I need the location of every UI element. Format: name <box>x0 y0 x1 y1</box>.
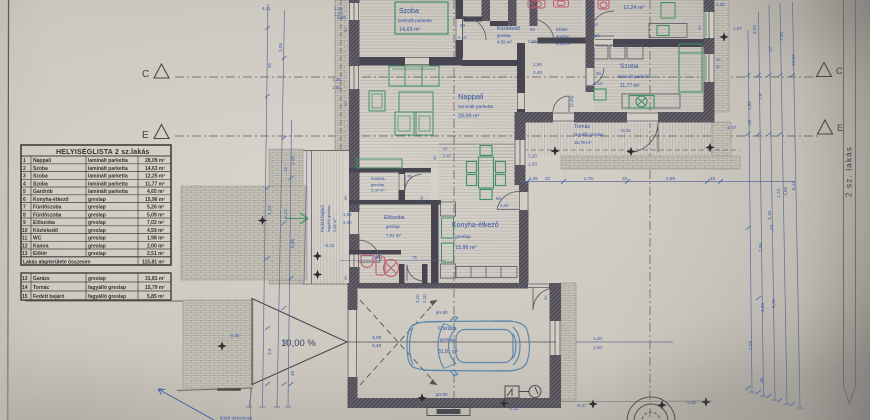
svg-text:2,51 m²: 2,51 m² <box>556 41 571 46</box>
svg-text:2,10: 2,10 <box>594 81 603 86</box>
nappali top wall right piece <box>462 60 517 66</box>
paving hatch entry court <box>269 149 303 284</box>
svg-text:2,10: 2,10 <box>422 294 427 303</box>
svg-text:Kamra: Kamra <box>371 176 385 181</box>
svg-text:greslap: greslap <box>88 213 106 219</box>
svg-text:,45: ,45 <box>747 119 752 126</box>
garage center line <box>347 341 556 343</box>
svg-text:2,8: 2,8 <box>758 93 763 100</box>
site boundary line left <box>25 300 183 302</box>
chain y181 ticks <box>525 179 723 184</box>
svg-text:greslap: greslap <box>440 337 456 342</box>
svg-text:7,00: 7,00 <box>779 32 784 41</box>
svg-text:C: C <box>142 69 149 80</box>
label szoba1 <box>398 8 432 33</box>
svg-text:4,59 m²: 4,59 m² <box>497 40 512 45</box>
dining table <box>467 146 506 200</box>
kamra south wall <box>349 200 441 205</box>
horizontal dim chain y181 <box>521 181 795 183</box>
svg-text:5,26 m²: 5,26 m² <box>147 205 165 211</box>
svg-text:2,51 m²: 2,51 m² <box>147 251 165 257</box>
nappali long sofa south <box>357 159 402 168</box>
svg-text:Gardrób: Gardrób <box>33 189 53 195</box>
svg-text:14,63 m²: 14,63 m² <box>399 27 420 33</box>
svg-text:1,74: 1,74 <box>776 189 781 198</box>
stub wall a <box>482 0 491 21</box>
level marks <box>229 128 697 411</box>
svg-text:4,14: 4,14 <box>267 206 272 215</box>
svg-text:90: 90 <box>496 196 501 201</box>
svg-text:20,: 20, <box>622 176 628 181</box>
roof overhang dashed line south <box>515 149 740 151</box>
svg-text:greslap: greslap <box>88 251 106 257</box>
garage dims text <box>372 335 382 349</box>
szoba 11,77 chair green <box>594 89 606 100</box>
door swing eloter-nappali <box>531 19 554 42</box>
kitchen floor divide line <box>439 143 514 145</box>
svg-text:1,20: 1,20 <box>334 6 343 11</box>
eloter south wall <box>538 38 586 44</box>
left dim line 3 <box>288 120 292 407</box>
svg-text:28,09 m²: 28,09 m² <box>458 114 479 120</box>
svg-text:6: 6 <box>23 197 26 203</box>
eloszoba south wall <box>349 250 401 255</box>
svg-text:45: 45 <box>290 370 295 376</box>
boiler box <box>505 386 519 398</box>
svg-text:8: 8 <box>23 213 26 219</box>
paving hatch SW lower <box>183 300 253 388</box>
svg-text:1,50: 1,50 <box>334 12 343 17</box>
svg-text:12: 12 <box>768 46 773 52</box>
door swing tornac south <box>628 123 658 153</box>
svg-text:30,: 30, <box>283 339 288 345</box>
svg-text:Fürdőszoba: Fürdőszoba <box>33 213 62 219</box>
bottom level dim line <box>420 401 712 402</box>
paving hatch step south of tornac <box>561 156 740 169</box>
svg-text:28,09 m²: 28,09 m² <box>145 158 165 164</box>
svg-text:greslap: greslap <box>88 228 106 234</box>
svg-text:2,40: 2,40 <box>372 343 382 349</box>
svg-text:1,06: 1,06 <box>529 176 538 181</box>
svg-text:Fürdőszoba: Fürdőszoba <box>33 205 62 211</box>
kitchen counter south row <box>456 267 517 278</box>
svg-text:-0,02: -0,02 <box>620 128 631 133</box>
left dim line 4 short <box>304 150 307 284</box>
svg-text:20: 20 <box>716 57 721 62</box>
kitchen stove green <box>442 243 454 262</box>
svg-text:Fedett bejáró: Fedett bejáró <box>33 294 64 300</box>
svg-text:greslap: greslap <box>88 236 106 242</box>
svg-text:15,79 m²: 15,79 m² <box>574 140 592 145</box>
svg-text:laminált parketta: laminált parketta <box>88 158 128 164</box>
door opening to garage <box>528 283 549 289</box>
svg-text:fagyálló greslap: fagyálló greslap <box>88 294 126 300</box>
label eloszoba <box>384 215 405 238</box>
szoba divide wall right <box>595 39 704 47</box>
svg-text:3,5: 3,5 <box>267 348 272 355</box>
svg-text:fagyálló greslap: fagyálló greslap <box>327 205 331 232</box>
svg-text:60: 60 <box>343 195 348 200</box>
svg-text:2,56: 2,56 <box>758 243 763 252</box>
svg-text:-0,02: -0,02 <box>324 243 335 248</box>
tornac west window opening <box>514 140 526 165</box>
svg-text:1,87: 1,87 <box>733 26 742 31</box>
kamra east wall <box>399 173 406 204</box>
kitchen counter bottom <box>441 264 456 278</box>
svg-text:1,00: 1,00 <box>343 212 352 217</box>
svg-text:90: 90 <box>593 22 598 27</box>
bathroom fixture north 2 <box>554 0 569 7</box>
svg-text:5,16: 5,16 <box>771 299 776 308</box>
svg-text:2,75: 2,75 <box>584 176 593 181</box>
east wall window 2 <box>703 54 715 82</box>
szoba 11,77 bed green <box>679 44 702 92</box>
svg-text:60: 60 <box>343 275 348 280</box>
nappali east wall opening <box>517 93 526 109</box>
floor texture nappali <box>359 66 517 168</box>
floor texture eloszoba-kamra-wc <box>359 172 431 283</box>
svg-text:12: 12 <box>283 166 288 172</box>
svg-text:2,10: 2,10 <box>419 196 424 205</box>
szoba divide door opening <box>594 39 613 48</box>
svg-text:15,79 m²: 15,79 m² <box>145 285 165 291</box>
right dim columns <box>748 2 800 408</box>
szoba 11,77 desk <box>622 94 680 108</box>
svg-text:11,77 m²: 11,77 m² <box>145 182 165 188</box>
west wall window opening 2 <box>349 66 361 89</box>
svg-text:2,22: 2,22 <box>283 209 288 218</box>
svg-text:31,81 m²: 31,81 m² <box>145 276 165 282</box>
stub lintel a <box>462 17 482 22</box>
svg-text:2,00 m²: 2,00 m² <box>147 244 165 250</box>
svg-text:4,41: 4,41 <box>262 6 271 11</box>
door swing kamra <box>405 175 421 191</box>
svg-text:1,50: 1,50 <box>533 62 542 67</box>
floor texture tornac <box>525 122 713 156</box>
svg-text:,15: ,15 <box>769 224 774 231</box>
label szoba 11,77 <box>618 63 651 89</box>
szoba 12,24 cabinet <box>661 3 675 19</box>
nappali armchair left <box>369 91 385 111</box>
svg-text:1,28: 1,28 <box>290 156 295 165</box>
kitchen sink green <box>442 218 454 238</box>
svg-text:1,20: 1,20 <box>593 336 602 341</box>
ramp triangle <box>252 299 347 385</box>
garage X arrowheads <box>430 300 438 385</box>
nappali corner dims <box>533 62 542 75</box>
left dim line 1 <box>263 4 269 407</box>
svg-text:2,10: 2,10 <box>415 294 420 303</box>
svg-text:Előszoba: Előszoba <box>384 215 405 221</box>
svg-text:laminált parketta: laminált parketta <box>88 189 128 195</box>
svg-text:12,25 m²: 12,25 m² <box>145 174 165 180</box>
door swing garage entry <box>533 288 555 310</box>
svg-text:Lakás alapterülete összesen: Lakás alapterülete összesen <box>23 260 91 266</box>
svg-text:11: 11 <box>22 236 28 242</box>
svg-text:1,69: 1,69 <box>783 187 788 196</box>
svg-text:greslap: greslap <box>556 34 570 39</box>
site boundary vertical below paving <box>250 387 252 420</box>
wc toilet red <box>361 256 399 277</box>
svg-text:90: 90 <box>443 146 448 151</box>
east exterior wall <box>704 0 715 123</box>
svg-text:pm 90: pm 90 <box>436 310 448 315</box>
svg-text:9: 9 <box>23 220 26 226</box>
svg-text:Tornác: Tornác <box>33 285 50 291</box>
svg-text:7,02 m²: 7,02 m² <box>386 233 401 238</box>
svg-text:14: 14 <box>22 285 28 291</box>
svg-text:greslap: greslap <box>88 276 106 282</box>
svg-text:10: 10 <box>22 228 28 234</box>
svg-text:laminált parketta: laminált parketta <box>458 104 494 110</box>
garage window dims <box>593 336 602 350</box>
svg-text:20: 20 <box>545 176 551 181</box>
svg-text:1: 1 <box>23 158 26 164</box>
bottom left leader arrow <box>158 389 214 420</box>
svg-text:4,28: 4,28 <box>760 303 765 312</box>
szoba 12,24 desk <box>649 24 687 38</box>
right sheet edge bar <box>844 0 856 404</box>
svg-text:11,77 m²: 11,77 m² <box>620 83 640 89</box>
right dim numbers <box>716 2 796 384</box>
svg-text:greslap: greslap <box>497 33 511 38</box>
svg-text:2,40: 2,40 <box>500 203 509 208</box>
svg-text:Konyha-étkező: Konyha-étkező <box>33 197 69 203</box>
svg-text:1,98 m²: 1,98 m² <box>147 236 165 242</box>
svg-text:1,50: 1,50 <box>332 85 341 90</box>
house south wall over garage <box>348 283 562 289</box>
svg-text:C: C <box>836 66 843 76</box>
label garazs <box>438 326 458 355</box>
room list table <box>21 145 171 300</box>
svg-text:-1,07: -1,07 <box>726 125 737 130</box>
stub wall d <box>586 0 595 92</box>
svg-text:13: 13 <box>22 251 28 257</box>
svg-text:1,50: 1,50 <box>593 345 602 350</box>
entry arrow green <box>285 213 308 224</box>
svg-text:90: 90 <box>460 23 465 28</box>
door swing szoba1 <box>463 17 487 41</box>
paving hatch west strip <box>335 0 349 150</box>
sheet left margin shading <box>0 0 8 420</box>
svg-text:Nappali: Nappali <box>458 92 484 101</box>
svg-text:5,85 m²: 5,85 m² <box>147 294 165 300</box>
nappali sofa top <box>389 66 439 86</box>
svg-text:Közlekedő: Közlekedő <box>497 26 521 32</box>
svg-text:greslap: greslap <box>455 234 471 240</box>
svg-text:Szoba: Szoba <box>33 174 48 180</box>
label konyha <box>452 222 499 251</box>
wall thickness labels <box>343 9 721 300</box>
svg-text:Szoba: Szoba <box>399 8 419 15</box>
svg-text:Előtér: Előtér <box>556 27 568 32</box>
garage door opening west <box>347 310 358 377</box>
kitchen east wall <box>519 181 529 283</box>
svg-text:2,10: 2,10 <box>591 33 600 38</box>
svg-text:Szoba: Szoba <box>620 63 639 70</box>
svg-text:külső térburkolat: külső térburkolat <box>220 416 253 420</box>
manhole <box>627 397 675 420</box>
garage west wall <box>348 288 358 408</box>
svg-text:Szoba: Szoba <box>33 182 48 188</box>
nappali coffee table <box>399 92 433 112</box>
szoba1 south door opening <box>405 57 429 67</box>
svg-text:laminált parketta: laminált parketta <box>618 74 651 79</box>
door opening in wall d <box>585 68 595 86</box>
svg-text:5,85 m²: 5,85 m² <box>332 218 337 232</box>
svg-text:60: 60 <box>343 27 348 32</box>
svg-text:greslap: greslap <box>386 224 400 229</box>
dark smudge on site line <box>217 388 241 391</box>
paving hatch SW large <box>181 186 307 280</box>
svg-text:90: 90 <box>432 155 437 160</box>
door swing gardrob <box>407 265 424 282</box>
svg-text:fagyálló greslap: fagyálló greslap <box>574 132 604 137</box>
kitchen east door opening <box>519 192 530 210</box>
section marker C left <box>154 64 169 78</box>
label kozlekedo <box>497 26 521 45</box>
svg-text:pm 90: pm 90 <box>436 392 448 397</box>
wc dim line <box>340 260 446 262</box>
szoba 12,24 chair green <box>657 26 669 36</box>
szoba 11,77 wardrobe <box>586 45 643 59</box>
door swing szoba 11,77 <box>586 68 604 86</box>
left dim numbers <box>262 6 346 376</box>
svg-text:1,20: 1,20 <box>528 154 537 159</box>
bathroom fixture north 1 <box>528 0 545 8</box>
tornac plant green <box>629 96 654 109</box>
svg-text:1,50: 1,50 <box>716 2 725 7</box>
kitchen west wall <box>431 205 439 284</box>
svg-text:15: 15 <box>22 294 28 300</box>
svg-text:90: 90 <box>343 101 348 106</box>
svg-text:5,09 m²: 5,09 m² <box>147 213 165 219</box>
svg-text:greslap: greslap <box>88 197 106 203</box>
svg-text:2,10: 2,10 <box>528 39 537 44</box>
vertical section line through plan <box>453 0 455 414</box>
section line E <box>175 135 818 137</box>
paving hatch east of garage <box>561 283 576 400</box>
svg-text:3,09: 3,09 <box>278 43 283 52</box>
svg-text:4,59 m²: 4,59 m² <box>147 228 165 234</box>
svg-text:3,19: 3,19 <box>767 211 772 220</box>
svg-text:12,24 m²: 12,24 m² <box>623 5 644 11</box>
svg-text:2,10: 2,10 <box>458 35 467 40</box>
door swing entry west <box>358 240 380 262</box>
door swing kitchen <box>497 191 519 209</box>
pump circle <box>519 386 541 398</box>
svg-text:E: E <box>142 130 149 141</box>
svg-text:-0,35: -0,35 <box>229 333 240 338</box>
west wall window opening 1 <box>349 3 361 20</box>
table rows text <box>22 158 165 300</box>
bathroom fixture north 3 <box>598 0 609 9</box>
floor texture kozlekedo <box>463 0 583 40</box>
svg-text:2,59: 2,59 <box>748 341 753 350</box>
szoba1 south wall <box>360 57 463 66</box>
svg-text:greslap: greslap <box>88 205 106 211</box>
stub wall c <box>530 0 538 26</box>
bejaro south edge line <box>303 283 349 285</box>
svg-text:14,63 m²: 14,63 m² <box>145 166 165 172</box>
door swing tornac from szoba <box>553 96 569 112</box>
left dim line 0 <box>249 388 252 407</box>
sheet left frame line <box>8 0 9 420</box>
wc east wall <box>399 264 405 284</box>
floor texture szoba 11,77 <box>594 47 704 112</box>
svg-text:4,65 m²: 4,65 m² <box>147 189 165 195</box>
svg-text:Tornác: Tornác <box>574 124 590 130</box>
label nappali <box>458 92 494 120</box>
east wall window 1 <box>703 12 715 38</box>
floor texture szoba1 <box>359 0 456 57</box>
stub lintel b <box>490 21 508 26</box>
west wall window dims <box>332 6 352 225</box>
svg-text:greslap: greslap <box>88 220 106 226</box>
svg-text:-0,80: -0,80 <box>686 400 697 405</box>
svg-text:90: 90 <box>530 27 535 32</box>
site line bottom left <box>177 388 252 391</box>
label fedett bejaro rotated <box>320 204 337 232</box>
paving hatch tornac east edge <box>712 122 731 169</box>
right dim bottom end ticks <box>749 392 803 408</box>
szoba terrace door opening <box>553 112 574 124</box>
svg-text:Nappali: Nappali <box>33 158 52 164</box>
svg-text:3,02: 3,02 <box>752 25 757 34</box>
svg-text:15,96 m²: 15,96 m² <box>455 245 476 251</box>
left dim bottom end ticks <box>246 406 291 408</box>
svg-text:90: 90 <box>596 71 601 76</box>
svg-text:7,02 m²: 7,02 m² <box>147 220 165 226</box>
tornac window dims <box>528 154 537 167</box>
label eloter <box>556 27 571 46</box>
floor texture fedett bejaro <box>312 150 344 284</box>
west wall wc window <box>349 254 361 267</box>
szoba1 label box <box>395 2 448 34</box>
svg-text:greslap: greslap <box>371 182 385 187</box>
stub wall b <box>508 0 517 26</box>
svg-text:1,85: 1,85 <box>747 101 752 110</box>
garage door sill <box>427 408 470 416</box>
svg-text:3: 3 <box>23 174 26 180</box>
svg-text:2,00 m²: 2,00 m² <box>371 188 385 193</box>
door swing szoba 12,24 <box>589 11 614 36</box>
svg-text:Előszoba: Előszoba <box>33 220 55 226</box>
svg-text:2 sz. lakás: 2 sz. lakás <box>845 146 854 197</box>
kitchen counter top <box>441 202 456 216</box>
svg-text:(2,40): (2,40) <box>569 95 574 107</box>
floor texture konyha <box>438 144 519 283</box>
gardrob wall piece <box>422 264 428 284</box>
svg-text:WC: WC <box>374 255 383 261</box>
svg-text:Szoba: Szoba <box>33 166 48 172</box>
svg-text:5: 5 <box>23 189 26 195</box>
svg-text:27,87: 27,87 <box>791 54 796 66</box>
szoba1 east wall <box>456 0 464 58</box>
garage east wall <box>550 284 562 409</box>
svg-text:45: 45 <box>710 176 716 181</box>
section marker C right <box>817 63 832 77</box>
floor texture szoba 12,24 <box>594 0 704 39</box>
garage turning X dashed <box>360 300 437 385</box>
label tornac <box>574 124 604 145</box>
svg-text:52: 52 <box>267 62 272 68</box>
survey stars <box>217 32 729 410</box>
svg-text:6,11: 6,11 <box>791 181 796 190</box>
szoba1 east door opening <box>455 19 464 40</box>
svg-text:laminált parketta: laminált parketta <box>88 166 128 172</box>
svg-text:115,81 m²: 115,81 m² <box>142 260 165 266</box>
